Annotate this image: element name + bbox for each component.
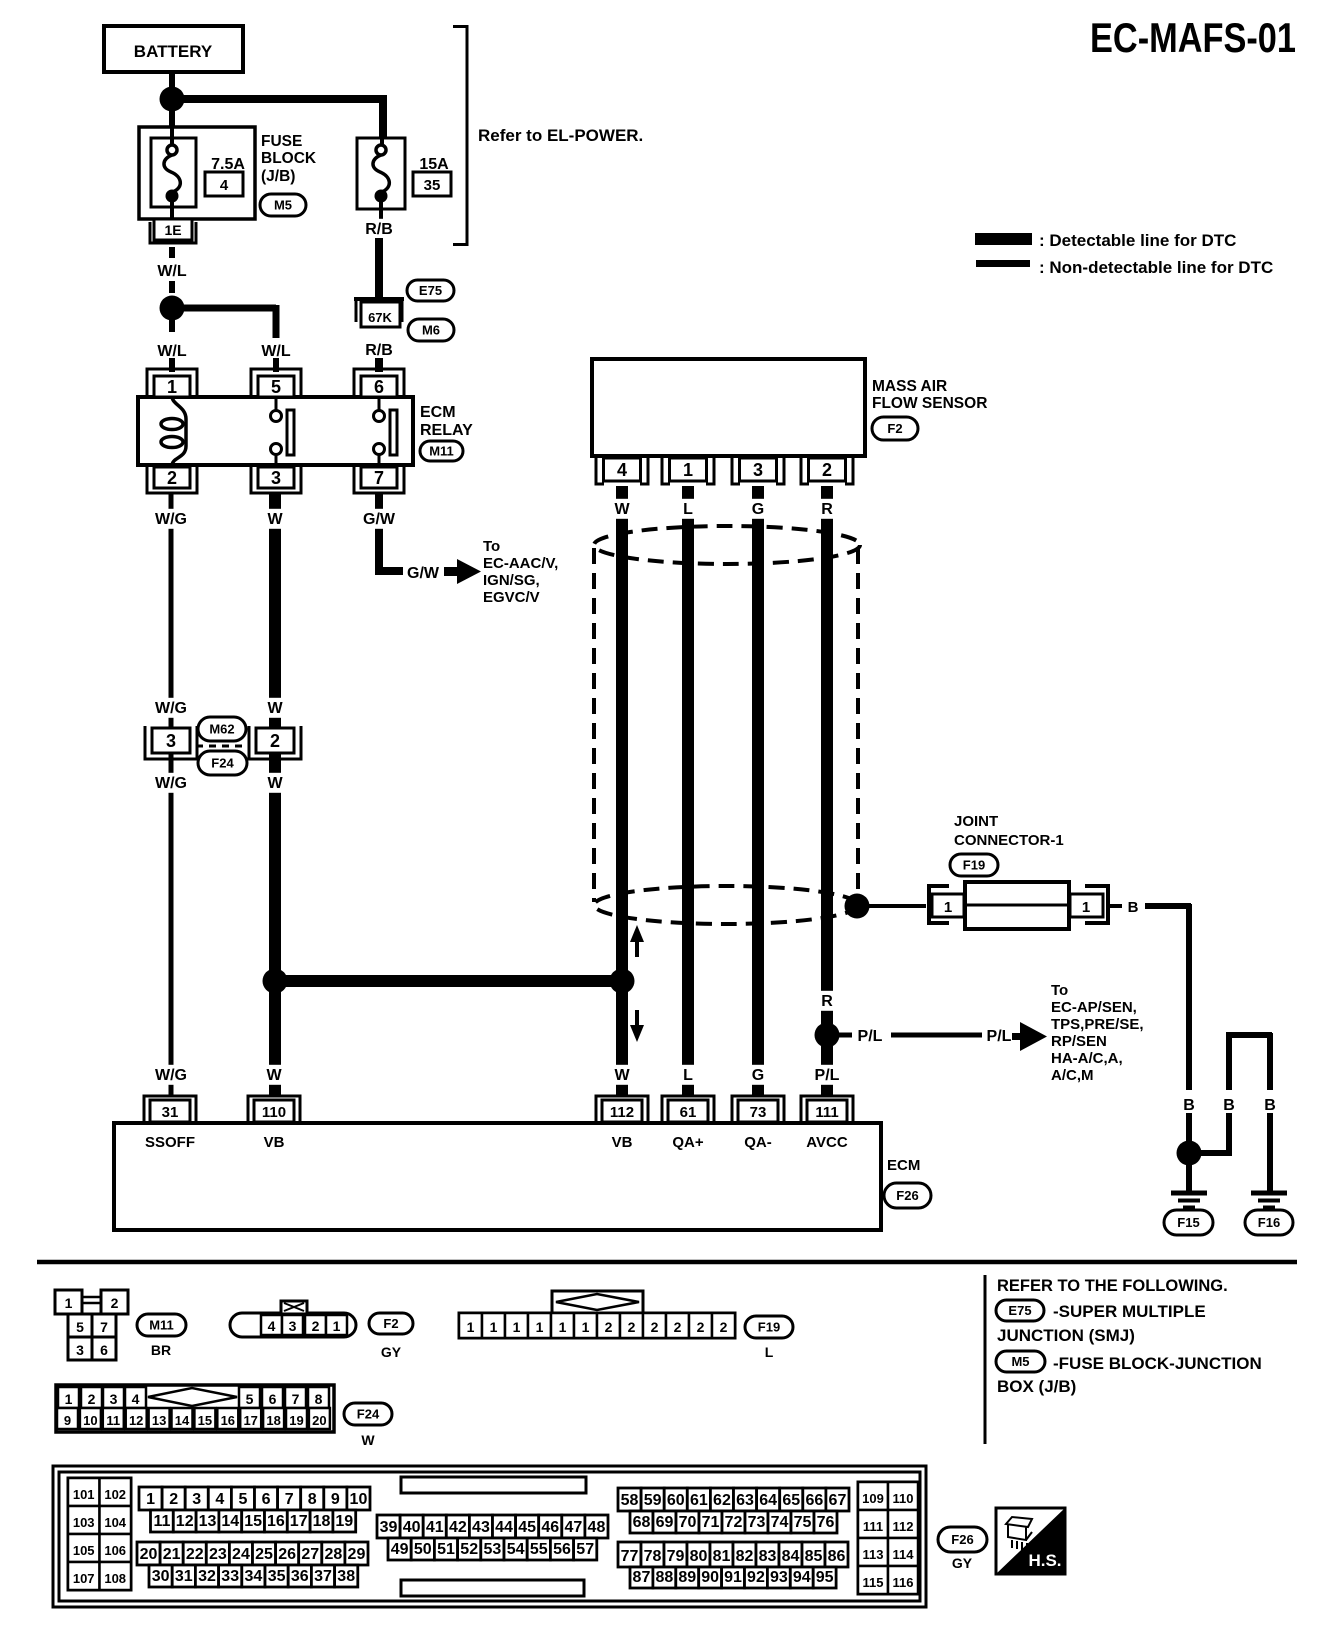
svg-text:25: 25 [255, 1546, 273, 1563]
svg-text:84: 84 [782, 1548, 800, 1565]
svg-text:ECM: ECM [887, 1157, 920, 1174]
svg-text:109: 109 [862, 1491, 884, 1506]
svg-text:To: To [1051, 982, 1068, 999]
svg-text:5: 5 [76, 1319, 84, 1335]
svg-text:73: 73 [748, 1514, 766, 1531]
svg-text:37: 37 [314, 1568, 332, 1585]
svg-text:70: 70 [679, 1514, 697, 1531]
svg-text:: Non-detectable line for DTC: : Non-detectable line for DTC [1039, 258, 1273, 277]
svg-text:1: 1 [467, 1319, 475, 1335]
svg-text:33: 33 [221, 1568, 239, 1585]
svg-text:53: 53 [484, 1541, 502, 1558]
svg-text:W: W [266, 1067, 282, 1084]
svg-text:63: 63 [736, 1492, 754, 1509]
svg-text:3: 3 [289, 1318, 297, 1334]
svg-text:46: 46 [541, 1519, 559, 1536]
svg-text:19: 19 [289, 1413, 303, 1428]
svg-text:77: 77 [621, 1548, 639, 1565]
svg-text:32: 32 [198, 1568, 216, 1585]
svg-text:3: 3 [166, 731, 176, 751]
svg-text:5: 5 [271, 377, 281, 397]
svg-text:54: 54 [507, 1541, 525, 1558]
svg-text:39: 39 [380, 1519, 398, 1536]
svg-text:6: 6 [269, 1391, 277, 1407]
svg-text:112: 112 [610, 1104, 634, 1121]
svg-text:112: 112 [893, 1519, 914, 1534]
svg-text:4: 4 [220, 177, 229, 194]
svg-text:4: 4 [617, 460, 627, 480]
svg-text:F24: F24 [357, 1407, 380, 1422]
svg-text:7: 7 [374, 468, 384, 488]
svg-text:F15: F15 [1177, 1215, 1199, 1230]
svg-text:61: 61 [690, 1492, 708, 1509]
svg-text:H.S.: H.S. [1028, 1551, 1061, 1570]
svg-text:75: 75 [794, 1514, 812, 1531]
svg-text:34: 34 [245, 1568, 263, 1585]
svg-text:111: 111 [863, 1519, 883, 1534]
svg-text:QA-: QA- [744, 1134, 772, 1151]
svg-text:R/B: R/B [365, 221, 393, 238]
svg-text:MASS AIR: MASS AIR [872, 378, 947, 395]
svg-text:87: 87 [633, 1569, 651, 1586]
svg-text:41: 41 [426, 1519, 444, 1536]
svg-text:78: 78 [644, 1548, 662, 1565]
svg-text:43: 43 [472, 1519, 490, 1536]
svg-text:71: 71 [702, 1514, 720, 1531]
svg-text:18: 18 [266, 1413, 280, 1428]
svg-text:8: 8 [308, 1491, 317, 1508]
svg-text:61: 61 [680, 1104, 697, 1121]
svg-text:M11: M11 [149, 1318, 174, 1333]
svg-text:4: 4 [268, 1318, 276, 1334]
svg-text:48: 48 [588, 1519, 606, 1536]
svg-text:36: 36 [291, 1568, 309, 1585]
svg-text:G/W: G/W [407, 565, 440, 582]
svg-text:BOX (J/B): BOX (J/B) [997, 1377, 1076, 1396]
svg-text:2: 2 [312, 1318, 320, 1334]
svg-text:44: 44 [495, 1519, 513, 1536]
svg-text:49: 49 [391, 1541, 409, 1558]
svg-text:74: 74 [771, 1514, 789, 1531]
svg-text:W/G: W/G [155, 1067, 187, 1084]
svg-text:102: 102 [104, 1487, 126, 1502]
svg-text:IGN/SG,: IGN/SG, [483, 572, 540, 589]
svg-text:11: 11 [153, 1513, 170, 1530]
svg-text:G/W: G/W [363, 511, 396, 528]
svg-text:92: 92 [747, 1569, 765, 1586]
svg-text:94: 94 [793, 1569, 811, 1586]
svg-text:EC-AAC/V,: EC-AAC/V, [483, 555, 558, 572]
svg-text:GY: GY [381, 1344, 402, 1360]
svg-text:59: 59 [644, 1492, 662, 1509]
svg-text:1: 1 [536, 1319, 544, 1335]
svg-text:SSOFF: SSOFF [145, 1134, 195, 1151]
svg-text:110: 110 [893, 1491, 914, 1506]
svg-text:M5: M5 [1011, 1354, 1029, 1369]
svg-text:R: R [821, 993, 833, 1010]
svg-text:79: 79 [667, 1548, 685, 1565]
svg-text:64: 64 [759, 1492, 777, 1509]
svg-text:81: 81 [713, 1548, 731, 1565]
svg-text:45: 45 [518, 1519, 536, 1536]
svg-text:B: B [1264, 1097, 1276, 1114]
svg-text:M6: M6 [422, 323, 440, 338]
svg-text:29: 29 [348, 1546, 366, 1563]
svg-text:38: 38 [337, 1568, 355, 1585]
svg-text:105: 105 [73, 1543, 95, 1558]
svg-text:11: 11 [106, 1413, 120, 1428]
svg-text:2: 2 [822, 460, 832, 480]
svg-text:W/L: W/L [261, 343, 291, 360]
svg-text:E75: E75 [419, 283, 442, 298]
svg-text:R/B: R/B [365, 342, 393, 359]
svg-text:65: 65 [782, 1492, 800, 1509]
svg-text:13: 13 [199, 1513, 217, 1530]
svg-text:F19: F19 [963, 858, 985, 873]
svg-text:50: 50 [414, 1541, 432, 1558]
svg-text:RELAY: RELAY [420, 422, 473, 439]
svg-text:1: 1 [333, 1318, 341, 1334]
svg-text:67K: 67K [368, 310, 392, 325]
svg-text:2: 2 [628, 1319, 636, 1335]
svg-text:1: 1 [65, 1391, 73, 1407]
svg-text:P/L: P/L [815, 1067, 840, 1084]
svg-text:TPS,PRE/SE,: TPS,PRE/SE, [1051, 1016, 1144, 1033]
svg-text:W: W [614, 501, 630, 518]
svg-text:3: 3 [271, 468, 281, 488]
svg-text:A/C,M: A/C,M [1051, 1067, 1094, 1084]
svg-text:F2: F2 [887, 421, 902, 436]
svg-text:F26: F26 [896, 1188, 918, 1203]
svg-text:EGVC/V: EGVC/V [483, 589, 540, 606]
svg-text:76: 76 [817, 1514, 835, 1531]
svg-text:83: 83 [759, 1548, 777, 1565]
svg-text:F16: F16 [1258, 1215, 1280, 1230]
svg-text:EC-AP/SEN,: EC-AP/SEN, [1051, 999, 1137, 1016]
svg-text:6: 6 [100, 1342, 108, 1358]
svg-text:58: 58 [621, 1492, 639, 1509]
svg-text:101: 101 [73, 1487, 95, 1502]
svg-text:JUNCTION (SMJ): JUNCTION (SMJ) [997, 1326, 1135, 1345]
svg-text:93: 93 [770, 1569, 788, 1586]
svg-text:G: G [752, 501, 764, 518]
svg-text:3: 3 [110, 1391, 118, 1407]
svg-text:E75: E75 [1008, 1303, 1031, 1318]
svg-text:M11: M11 [429, 444, 454, 459]
svg-text:JOINT: JOINT [954, 813, 998, 830]
svg-text:1: 1 [146, 1491, 155, 1508]
svg-text:69: 69 [656, 1514, 674, 1531]
svg-text:2: 2 [270, 731, 280, 751]
svg-text:12: 12 [176, 1513, 194, 1530]
svg-text:W: W [267, 775, 283, 792]
svg-text:90: 90 [701, 1569, 719, 1586]
svg-text:55: 55 [530, 1541, 548, 1558]
svg-text:66: 66 [805, 1492, 823, 1509]
svg-text:1: 1 [582, 1319, 590, 1335]
svg-text:67: 67 [829, 1492, 847, 1509]
svg-text:56: 56 [553, 1541, 571, 1558]
svg-text:16: 16 [221, 1413, 235, 1428]
svg-text:111: 111 [815, 1104, 838, 1121]
svg-text:15: 15 [244, 1513, 262, 1530]
svg-text:80: 80 [690, 1548, 708, 1565]
svg-text:1: 1 [944, 899, 952, 916]
svg-text:B: B [1128, 899, 1139, 916]
svg-text:EC-MAFS-01: EC-MAFS-01 [1090, 14, 1296, 61]
svg-text:1: 1 [490, 1319, 498, 1335]
svg-text:-FUSE BLOCK-JUNCTION: -FUSE BLOCK-JUNCTION [1053, 1354, 1262, 1373]
svg-text:116: 116 [893, 1575, 914, 1590]
svg-text:113: 113 [863, 1547, 884, 1562]
svg-text:42: 42 [449, 1519, 467, 1536]
svg-text:2: 2 [169, 1491, 178, 1508]
svg-text:27: 27 [301, 1546, 319, 1563]
svg-text:15: 15 [198, 1413, 212, 1428]
svg-text:7: 7 [285, 1491, 294, 1508]
svg-text:2: 2 [605, 1319, 613, 1335]
svg-text:57: 57 [576, 1541, 594, 1558]
svg-text:103: 103 [73, 1515, 95, 1530]
svg-text:CONNECTOR-1: CONNECTOR-1 [954, 832, 1064, 849]
svg-text:7: 7 [100, 1319, 108, 1335]
svg-text:24: 24 [232, 1546, 250, 1563]
svg-text:82: 82 [736, 1548, 754, 1565]
svg-text:2: 2 [88, 1391, 96, 1407]
svg-text:72: 72 [725, 1514, 743, 1531]
svg-text:106: 106 [104, 1543, 126, 1558]
svg-text:17: 17 [290, 1513, 308, 1530]
svg-text:(J/B): (J/B) [261, 168, 295, 185]
svg-text:108: 108 [104, 1571, 126, 1586]
svg-text:RP/SEN: RP/SEN [1051, 1033, 1107, 1050]
svg-text:4: 4 [132, 1391, 140, 1407]
svg-text:107: 107 [73, 1571, 95, 1586]
svg-text:-SUPER MULTIPLE: -SUPER MULTIPLE [1053, 1302, 1206, 1321]
svg-text:W/G: W/G [155, 700, 187, 717]
svg-text:W: W [267, 511, 283, 528]
svg-text:16: 16 [267, 1513, 285, 1530]
svg-text:F19: F19 [758, 1320, 780, 1335]
svg-text:W/G: W/G [155, 775, 187, 792]
svg-text:W: W [267, 700, 283, 717]
svg-text:9: 9 [64, 1413, 71, 1428]
svg-text:20: 20 [312, 1413, 326, 1428]
svg-text:114: 114 [893, 1547, 915, 1562]
svg-text:GY: GY [952, 1555, 973, 1571]
svg-text:1E: 1E [164, 222, 181, 238]
svg-text:G: G [752, 1067, 764, 1084]
svg-text:W: W [361, 1432, 375, 1448]
svg-text:60: 60 [667, 1492, 685, 1509]
svg-text:7: 7 [292, 1391, 300, 1407]
svg-text:62: 62 [713, 1492, 731, 1509]
svg-text:12: 12 [129, 1413, 143, 1428]
svg-text:5: 5 [246, 1391, 254, 1407]
svg-text:110: 110 [262, 1104, 286, 1121]
svg-text:QA+: QA+ [672, 1134, 704, 1151]
svg-text:2: 2 [697, 1319, 705, 1335]
svg-text:3: 3 [192, 1491, 201, 1508]
svg-text:4: 4 [215, 1491, 224, 1508]
svg-text:1: 1 [559, 1319, 567, 1335]
svg-text:35: 35 [424, 177, 441, 194]
svg-text:89: 89 [678, 1569, 696, 1586]
svg-text:3: 3 [76, 1342, 84, 1358]
svg-text:91: 91 [724, 1569, 742, 1586]
svg-text:5: 5 [238, 1491, 247, 1508]
svg-text:28: 28 [324, 1546, 342, 1563]
svg-text:P/L: P/L [987, 1028, 1012, 1045]
svg-text:BATTERY: BATTERY [134, 42, 213, 61]
svg-text:W/L: W/L [157, 343, 187, 360]
svg-text:22: 22 [186, 1546, 204, 1563]
svg-text:7.5A: 7.5A [211, 156, 245, 173]
svg-text:20: 20 [140, 1546, 158, 1563]
svg-text:: Detectable line for DTC: : Detectable line for DTC [1039, 231, 1236, 250]
svg-text:14: 14 [175, 1413, 190, 1428]
svg-text:10: 10 [83, 1413, 97, 1428]
svg-text:L: L [683, 1067, 693, 1084]
svg-text:23: 23 [209, 1546, 227, 1563]
svg-text:115: 115 [863, 1575, 884, 1590]
svg-text:2: 2 [674, 1319, 682, 1335]
svg-text:1: 1 [513, 1319, 521, 1335]
svg-text:13: 13 [152, 1413, 166, 1428]
svg-text:F24: F24 [211, 756, 234, 771]
svg-text:88: 88 [655, 1569, 673, 1586]
svg-text:10: 10 [350, 1491, 368, 1508]
svg-text:21: 21 [163, 1546, 181, 1563]
svg-text:W/L: W/L [157, 263, 187, 280]
svg-text:To: To [483, 538, 500, 555]
svg-text:86: 86 [828, 1548, 846, 1565]
svg-text:1: 1 [65, 1295, 73, 1311]
svg-text:31: 31 [162, 1104, 179, 1121]
svg-text:2: 2 [720, 1319, 728, 1335]
svg-text:REFER TO THE FOLLOWING.: REFER TO THE FOLLOWING. [997, 1277, 1228, 1295]
svg-text:6: 6 [374, 377, 384, 397]
svg-text:31: 31 [175, 1568, 193, 1585]
svg-text:19: 19 [335, 1513, 353, 1530]
svg-text:6: 6 [262, 1491, 271, 1508]
svg-text:35: 35 [268, 1568, 286, 1585]
svg-text:3: 3 [753, 460, 763, 480]
svg-text:BR: BR [151, 1342, 171, 1358]
svg-text:BLOCK: BLOCK [261, 150, 317, 167]
svg-text:R: R [821, 501, 833, 518]
svg-text:FUSE: FUSE [261, 133, 302, 150]
svg-text:2: 2 [167, 468, 177, 488]
svg-text:17: 17 [243, 1413, 257, 1428]
svg-text:W: W [614, 1067, 630, 1084]
svg-text:VB: VB [264, 1134, 285, 1151]
svg-text:15A: 15A [419, 156, 449, 173]
svg-text:9: 9 [331, 1491, 340, 1508]
svg-text:HA-A/C,A,: HA-A/C,A, [1051, 1050, 1123, 1067]
svg-text:FLOW SENSOR: FLOW SENSOR [872, 395, 987, 412]
svg-text:2: 2 [651, 1319, 659, 1335]
svg-text:AVCC: AVCC [806, 1134, 848, 1151]
svg-text:B: B [1183, 1097, 1195, 1114]
svg-text:B: B [1223, 1097, 1235, 1114]
svg-text:W/G: W/G [155, 511, 187, 528]
svg-text:52: 52 [460, 1541, 478, 1558]
svg-text:73: 73 [750, 1104, 767, 1121]
svg-text:51: 51 [437, 1541, 455, 1558]
svg-text:2: 2 [111, 1295, 119, 1311]
svg-text:85: 85 [805, 1548, 823, 1565]
svg-text:68: 68 [633, 1514, 651, 1531]
svg-text:M5: M5 [274, 198, 292, 213]
svg-text:8: 8 [315, 1391, 323, 1407]
svg-text:40: 40 [403, 1519, 421, 1536]
svg-text:M62: M62 [209, 722, 234, 737]
svg-text:1: 1 [167, 377, 177, 397]
svg-text:ECM: ECM [420, 404, 456, 421]
svg-text:L: L [683, 501, 693, 518]
svg-text:F2: F2 [383, 1316, 398, 1331]
svg-text:1: 1 [1082, 899, 1090, 916]
svg-text:104: 104 [104, 1515, 126, 1530]
svg-text:18: 18 [313, 1513, 331, 1530]
svg-text:47: 47 [564, 1519, 582, 1536]
svg-text:L: L [765, 1344, 774, 1360]
svg-text:95: 95 [816, 1569, 834, 1586]
svg-text:14: 14 [221, 1513, 239, 1530]
svg-text:VB: VB [612, 1134, 633, 1151]
svg-text:Refer to EL-POWER.: Refer to EL-POWER. [478, 126, 643, 145]
svg-text:1: 1 [683, 460, 693, 480]
svg-text:P/L: P/L [858, 1028, 883, 1045]
svg-text:F26: F26 [951, 1532, 973, 1547]
svg-text:26: 26 [278, 1546, 296, 1563]
svg-text:30: 30 [152, 1568, 170, 1585]
